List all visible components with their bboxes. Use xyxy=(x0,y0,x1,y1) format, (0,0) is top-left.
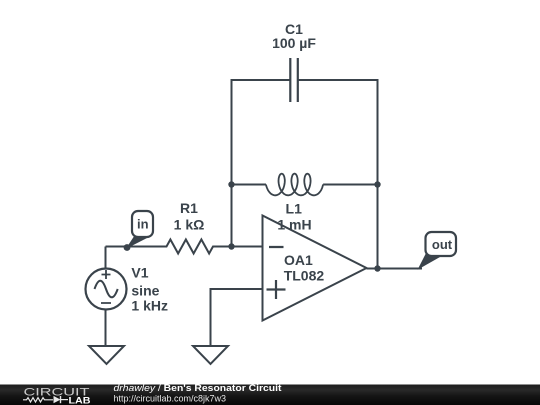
svg-text:http://circuitlab.com/c8jk7w3: http://circuitlab.com/c8jk7w3 xyxy=(114,394,227,404)
svg-text:V1: V1 xyxy=(131,265,148,281)
svg-text:TL082: TL082 xyxy=(284,268,325,284)
svg-text:L1: L1 xyxy=(286,201,303,217)
svg-text:in: in xyxy=(137,217,149,232)
svg-text:sine: sine xyxy=(131,283,159,299)
svg-text:100 µF: 100 µF xyxy=(272,35,316,51)
svg-text:1 kHz: 1 kHz xyxy=(131,298,168,314)
svg-text:OA1: OA1 xyxy=(284,252,313,268)
svg-text:1 kΩ: 1 kΩ xyxy=(174,217,205,233)
svg-text:R1: R1 xyxy=(180,200,198,216)
svg-text:drhawley / Ben's Resonator Cir: drhawley / Ben's Resonator Circuit xyxy=(114,383,283,394)
svg-text:out: out xyxy=(432,237,453,252)
svg-text:LAB: LAB xyxy=(69,396,91,405)
svg-text:1 mH: 1 mH xyxy=(277,217,311,233)
